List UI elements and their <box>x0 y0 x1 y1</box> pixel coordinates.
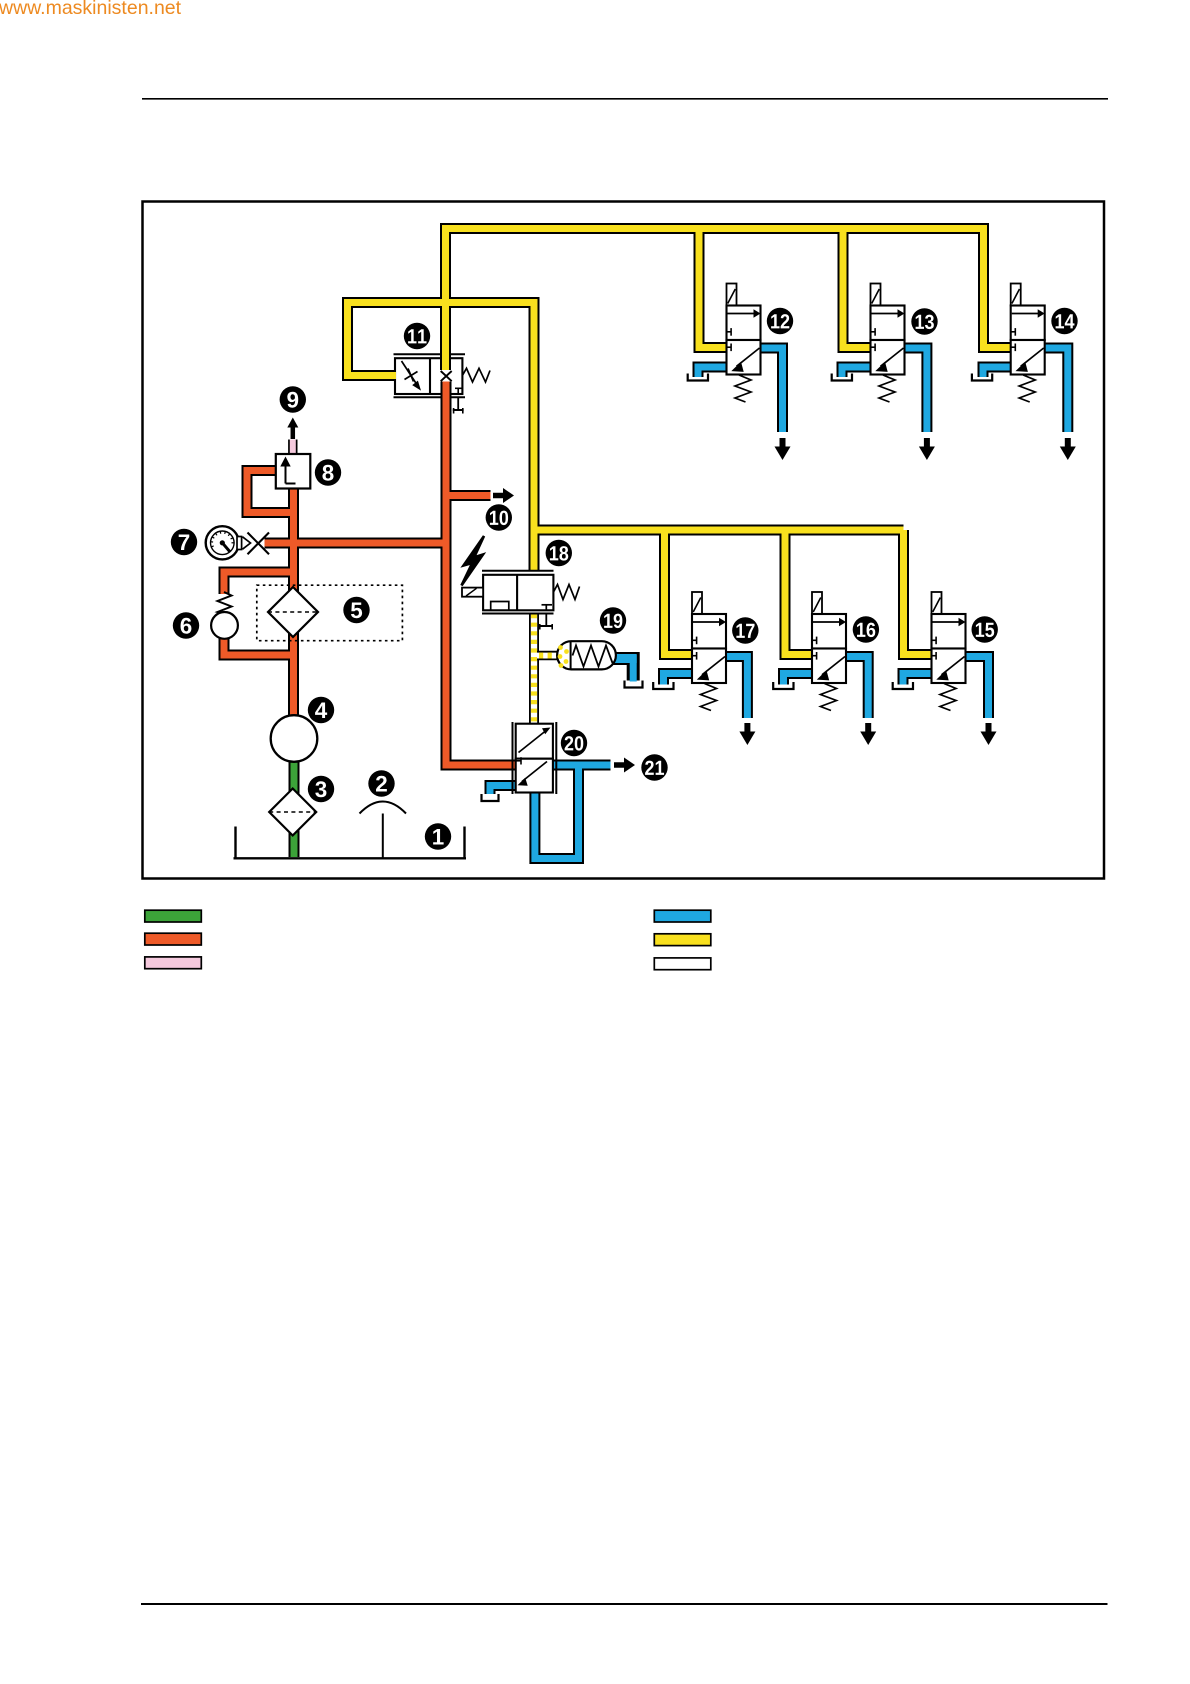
badge 11 <box>404 323 430 349</box>
wire: pink vent stub <box>288 440 297 456</box>
pressure reducing valve 11 <box>402 361 422 391</box>
wire: yellow net fill <box>348 229 1013 655</box>
wire: green line fill <box>291 742 298 857</box>
legend green <box>145 910 202 922</box>
badge 15 <box>972 616 998 642</box>
badge 6 <box>173 612 199 638</box>
badge 17 <box>732 617 758 643</box>
arrow out valve 12 <box>775 438 791 460</box>
accumulator 19 <box>557 641 616 669</box>
badge 3 <box>308 776 334 802</box>
wire: green suction line (outline) <box>289 742 300 857</box>
pressure gauge 7 <box>206 526 239 559</box>
badge 8 <box>315 459 341 485</box>
wire: accumulator outlet fill <box>610 655 637 682</box>
badge 4 <box>308 697 334 723</box>
badge 5 <box>343 597 369 623</box>
wire: yellow solenoid-supply net (outlines) <box>348 229 1013 655</box>
relief valve 8 <box>276 454 311 489</box>
drain symbol below valve 18 <box>539 614 553 630</box>
bypass spring (component 6 branch) <box>218 592 232 614</box>
badge 10 <box>486 504 512 530</box>
pressure filter 5 <box>268 587 318 637</box>
arrow out valve 17 <box>739 723 755 745</box>
bypass valve 6 <box>211 612 238 639</box>
badge 21 <box>641 754 667 780</box>
drain bracket accumulator <box>625 681 643 688</box>
legend white <box>654 958 711 970</box>
arrow out valve 13 <box>919 438 935 460</box>
gauge connector / test point <box>237 537 251 550</box>
solenoid valve 17 <box>653 592 726 711</box>
legend pink <box>145 957 202 969</box>
legend blue <box>654 910 711 922</box>
drain bracket valve 20 <box>482 794 499 801</box>
pressure switch 18 <box>462 571 554 614</box>
solenoid valve 12 <box>688 284 761 403</box>
badge 14 <box>1051 308 1077 334</box>
badge 2 <box>368 770 394 796</box>
solenoid valve 14 <box>972 284 1045 403</box>
wire: dashed yellow pilot line <box>530 614 558 724</box>
badge 20 <box>561 730 587 756</box>
vent arrow to 9 <box>287 418 298 440</box>
suction filter 3 <box>269 789 316 836</box>
badge 12 <box>767 308 793 334</box>
badge 1 <box>425 823 451 849</box>
pressure reducing valve 11 body <box>394 354 466 397</box>
spring of valve 11 <box>462 368 490 382</box>
solenoid valve 13 <box>832 284 905 403</box>
closed port X in valve 11 <box>441 371 452 381</box>
pump 4 <box>271 715 318 762</box>
outlet arrow 10 <box>493 488 514 503</box>
badge 18 <box>546 540 572 566</box>
arrow to 21 <box>614 758 635 773</box>
badge 13 <box>911 308 937 334</box>
pilot port marks valve 11 <box>455 388 462 394</box>
electric lightning symbol (18) <box>462 536 485 586</box>
unloading valve 20 <box>513 722 557 794</box>
arrow out valve 15 <box>981 723 997 745</box>
arrow out valve 16 <box>860 723 876 745</box>
wire: orange pressure net (outlines) <box>224 382 517 766</box>
bottom rule <box>141 1603 1108 1605</box>
suction strainer 2 <box>360 802 407 859</box>
wire: blue tank-return net (outlines) <box>490 348 1068 859</box>
diagram frame <box>143 202 1105 879</box>
solenoid valve 16 <box>773 592 846 711</box>
svg-text:www.maskinisten.net: www.maskinisten.net <box>0 0 182 19</box>
solenoid valve 15 <box>893 592 966 711</box>
badge 16 <box>853 616 879 642</box>
arrow out valve 14 <box>1060 438 1076 460</box>
reservoir 1 <box>234 827 467 859</box>
badge 19 <box>600 607 626 633</box>
closed test connection X (7) <box>248 533 270 555</box>
top rule <box>142 98 1108 100</box>
spring of valve 18 <box>554 585 580 600</box>
wire: blue net fill <box>490 348 1068 859</box>
badge 9 <box>280 386 306 412</box>
legend yellow <box>654 934 711 946</box>
wire: orange net fill <box>224 382 517 766</box>
pressure filter 5 dotted enclosure <box>257 585 403 641</box>
legend orange <box>145 933 202 945</box>
badge 7 <box>171 529 197 555</box>
wire: accumulator outlet (outline) <box>610 659 633 681</box>
drain symbol below valve 11 <box>453 397 464 413</box>
